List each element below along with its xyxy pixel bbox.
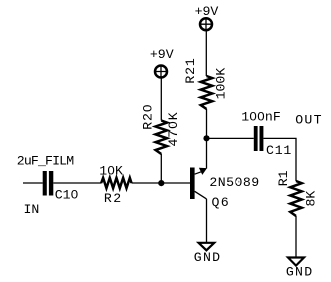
node collector junction — [203, 135, 209, 141]
svg-text:2N5089: 2N5089 — [209, 175, 259, 190]
ground (transistor) — [199, 243, 215, 251]
wire C11 to OUT corner down to R1 — [263, 138, 296, 181]
svg-text:GND: GND — [194, 250, 222, 265]
svg-text:OUT: OUT — [295, 112, 323, 127]
capacitor C10 — [43, 171, 54, 196]
wire IN to C10 — [23, 182, 43, 184]
svg-text:+9V: +9V — [150, 47, 174, 62]
wire +9V to R21 — [205, 31, 207, 76]
wire emitter to ground — [206, 199, 208, 243]
wire R21 to collector node — [206, 109, 208, 138]
svg-text:GND: GND — [286, 265, 314, 280]
resistor R21 — [201, 76, 213, 109]
svg-text:2uF_FILM: 2uF_FILM — [17, 154, 74, 169]
wire junction to R20 — [160, 154, 162, 183]
wire R2 to base — [132, 182, 191, 184]
power +9V (top) — [199, 17, 213, 31]
wire node to C11 — [207, 137, 254, 139]
resistor R1 — [290, 181, 302, 216]
node junction base — [158, 180, 164, 186]
svg-text:8K: 8K — [303, 191, 318, 207]
wire R20 to +9V — [160, 78, 162, 120]
svg-text:470K: 470K — [166, 111, 181, 146]
capacitor C11 — [254, 126, 264, 151]
svg-text:R1: R1 — [276, 170, 291, 186]
svg-text:Q6: Q6 — [212, 195, 230, 210]
wire C10 to R2 — [53, 182, 101, 184]
wire R1 to ground — [295, 216, 297, 258]
svg-text:100K: 100K — [213, 68, 228, 100]
svg-text:R2: R2 — [104, 191, 123, 206]
wire collector node to transistor — [206, 138, 208, 168]
resistor R2 — [101, 178, 131, 188]
svg-text:R21: R21 — [183, 57, 198, 83]
ground (right) — [288, 258, 304, 266]
svg-text:+9V: +9V — [195, 4, 219, 19]
transistor Q6 — [190, 168, 207, 200]
svg-text:C11: C11 — [266, 143, 292, 158]
white patches inside zero glyphs — [73, 78, 262, 196]
power +9V (left) — [154, 65, 168, 79]
resistor R20 — [156, 121, 168, 155]
svg-text:IN: IN — [24, 202, 40, 217]
